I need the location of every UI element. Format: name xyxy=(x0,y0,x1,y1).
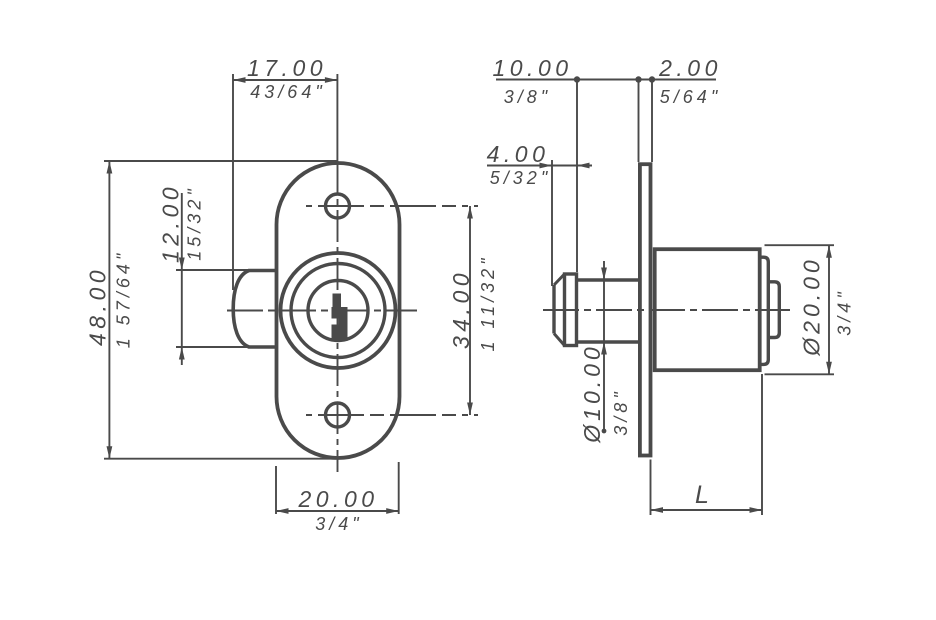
svg-text:5/64": 5/64" xyxy=(660,87,721,107)
cylinder outer circle xyxy=(281,253,396,368)
svg-text:10.00: 10.00 xyxy=(492,55,572,81)
cylinder inner circle xyxy=(308,281,368,341)
svg-text:1 11/32": 1 11/32" xyxy=(478,254,498,351)
screw hole bottom xyxy=(326,403,350,427)
button cap xyxy=(565,274,577,346)
body end step B xyxy=(768,282,779,338)
dimension 12.00 arrows xyxy=(179,258,185,360)
dimension 17.00 arrows xyxy=(233,77,337,83)
svg-text:3/8": 3/8" xyxy=(611,388,631,435)
svg-text:3/4": 3/4" xyxy=(835,288,855,335)
screw hole top xyxy=(326,194,350,218)
dimension 4.00 line xyxy=(487,165,592,167)
mounting plate (side) xyxy=(640,164,651,455)
svg-text:3/4": 3/4" xyxy=(315,514,362,534)
dimension 20.00 line xyxy=(276,510,399,512)
dimension dia20.00 extension lines xyxy=(765,244,835,246)
oval faceplate xyxy=(277,163,400,458)
dimension 20.00 extension lines xyxy=(275,466,277,514)
dimension dots xyxy=(574,76,580,82)
dimension 12.00 extension lines xyxy=(176,269,250,271)
svg-text:34.00: 34.00 xyxy=(448,269,474,349)
dimension dia10.00 line xyxy=(603,261,605,432)
side view centerline xyxy=(543,309,790,311)
dimension 4.00 arrows xyxy=(540,163,590,169)
svg-text:15/32": 15/32" xyxy=(185,185,205,260)
svg-text:43/64": 43/64" xyxy=(250,82,325,102)
dimension 17.00 line xyxy=(233,79,337,81)
side tab (left protrusion) xyxy=(233,271,276,348)
svg-text:5/32": 5/32" xyxy=(490,168,551,188)
svg-text:4.00: 4.00 xyxy=(487,141,550,167)
svg-text:17.00: 17.00 xyxy=(247,55,327,81)
cylinder middle circle xyxy=(291,264,385,358)
dimension 48.00 line xyxy=(108,161,110,459)
dimension L extension lines xyxy=(650,460,652,516)
dimension 34.00 line xyxy=(469,206,471,415)
dimension 34.00 arrows xyxy=(467,206,473,415)
dimension dia10.00 end dot xyxy=(602,429,607,434)
centerline top screw hole xyxy=(306,205,478,207)
dimension 12.00 line xyxy=(181,193,183,365)
keyhole xyxy=(332,294,348,342)
dimension 48.00 arrows xyxy=(107,161,113,459)
dimension 48.00 extension lines xyxy=(104,160,337,162)
lock body xyxy=(655,249,760,370)
vertical centerline front view xyxy=(337,162,339,472)
svg-text:Ø10.00: Ø10.00 xyxy=(579,343,605,443)
svg-text:3/8": 3/8" xyxy=(504,87,551,107)
dimension 4.00 extension line xyxy=(551,160,553,286)
dimension dia10.00 arrows xyxy=(601,268,607,355)
button chamfer top xyxy=(554,274,565,285)
svg-text:2.00: 2.00 xyxy=(658,55,722,81)
svg-text:48.00: 48.00 xyxy=(85,266,111,346)
body end step A xyxy=(761,257,768,364)
dimension dia20.00 arrows xyxy=(826,245,832,374)
extension lines plate xyxy=(638,80,640,163)
svg-text:20.00: 20.00 xyxy=(297,486,378,512)
button front face xyxy=(552,285,555,334)
svg-text:Ø20.00: Ø20.00 xyxy=(799,256,825,356)
centerline bottom screw hole xyxy=(306,414,478,416)
dimension L line xyxy=(651,509,763,511)
dimension 20.00 arrows xyxy=(276,508,399,514)
button stem bottom line xyxy=(577,340,640,343)
extension line stem start xyxy=(576,80,578,273)
svg-text:12.00: 12.00 xyxy=(158,183,184,263)
svg-text:1 57/64": 1 57/64" xyxy=(114,250,134,348)
dimension 17.00 extension lines xyxy=(232,74,234,290)
dimension L arrows xyxy=(651,507,763,513)
button stem top line xyxy=(577,278,640,281)
button chamfer bottom xyxy=(554,334,565,346)
dimension 10.00 / 2.00 line xyxy=(496,79,716,81)
dimension dia20.00 line xyxy=(828,245,830,374)
horizontal centerline front view xyxy=(227,310,417,312)
svg-text:L: L xyxy=(695,481,709,509)
